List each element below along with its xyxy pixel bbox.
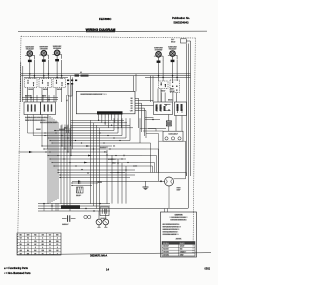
svg-text:DOOR SW: DOOR SW	[100, 147, 108, 149]
svg-text:3: 3	[35, 247, 36, 249]
svg-text:14: 14	[106, 268, 109, 272]
svg-text:4: 4	[57, 238, 58, 240]
svg-text:RD RED: RD RED	[163, 249, 170, 251]
svg-text:BK: BK	[113, 146, 115, 148]
svg-text:BEFORE SERVICING: BEFORE SERVICING	[170, 219, 187, 221]
svg-text:• = Non-Illustrated Parts: • = Non-Illustrated Parts	[4, 272, 31, 275]
svg-text:P4 P3 P2 2350W 1500W: P4 P3 P2 2350W 1500W	[40, 122, 58, 124]
svg-text:BK: BK	[135, 166, 137, 168]
svg-text:6: 6	[57, 247, 58, 249]
svg-text:WHITE: WHITE	[180, 246, 185, 248]
svg-text:YL: YL	[42, 253, 44, 255]
svg-text:WH WHI: WH WHI	[163, 246, 169, 248]
svg-text:SW RF: SW RF	[28, 89, 33, 91]
svg-text:5: 5	[50, 247, 51, 249]
svg-text:SW LF: SW LF	[161, 91, 166, 93]
svg-text:■ = Functioning Parts: ■ = Functioning Parts	[4, 267, 29, 270]
svg-text:3: 3	[50, 238, 51, 240]
svg-text:BK-10: BK-10	[98, 182, 103, 184]
svg-text:6: 6	[28, 241, 29, 243]
svg-text:1: 1	[35, 238, 36, 240]
svg-text:5995354643: 5995354643	[174, 20, 189, 24]
svg-text:OVEN: OVEN	[177, 187, 181, 189]
svg-text:L1: L1	[80, 72, 82, 74]
svg-text:1: 1	[50, 253, 51, 255]
svg-text:2: 2	[28, 247, 29, 249]
svg-text:FEF366C: FEF366C	[99, 17, 112, 21]
svg-text:0502: 0502	[205, 268, 211, 271]
svg-text:PROBE: PROBE	[76, 195, 81, 197]
svg-text:1: 1	[20, 247, 21, 249]
svg-text:YL: YL	[27, 238, 29, 240]
svg-text:BK-12: BK-12	[171, 41, 176, 43]
svg-text:Publication No.: Publication No.	[172, 16, 190, 20]
svg-text:4: 4	[42, 247, 43, 249]
svg-text:2: 2	[57, 253, 58, 255]
svg-text:-NOTE-: -NOTE-	[175, 238, 182, 240]
svg-text:OVEN LT: OVEN LT	[62, 224, 69, 226]
svg-text:ELECTRONIC OVEN CONTROL: ELECTRONIC OVEN CONTROL	[81, 94, 107, 96]
svg-text:BL: BL	[27, 250, 29, 252]
svg-text:WH-6: WH-6	[112, 162, 116, 164]
svg-text:2: 2	[42, 238, 43, 240]
svg-text:L2: L2	[66, 100, 68, 102]
svg-text:36EW0F1 NN-A: 36EW0F1 NN-A	[90, 255, 108, 258]
svg-text:YL: YL	[56, 244, 58, 246]
svg-text:CAUTION: CAUTION	[174, 213, 183, 216]
svg-text:P3 P2: P3 P2	[42, 95, 46, 97]
svg-text:BK: BK	[123, 155, 125, 157]
svg-text:1500W: 1500W	[36, 129, 41, 131]
svg-text:BL: BL	[42, 241, 44, 243]
svg-text:5: 5	[20, 241, 21, 243]
svg-text:BROIL: BROIL	[168, 100, 173, 102]
